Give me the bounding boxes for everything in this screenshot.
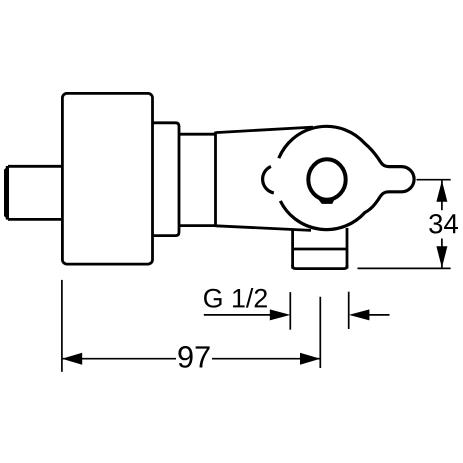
dim 97 right arrowhead [300, 353, 320, 365]
outlet right edge [346, 228, 349, 269]
dim 97 left extension line [61, 280, 63, 372]
stem outline [7, 166, 62, 220]
dim G 1/2 right tick [348, 292, 350, 329]
dim G 1/2 right line with left arrow [353, 314, 390, 316]
stem left chamfer bar [4, 165, 9, 221]
dim 34 top extension line [417, 179, 451, 181]
handle inner circle [308, 159, 345, 199]
knob body [62, 93, 152, 264]
dim 97 line left segment [62, 358, 176, 360]
dim 34 bottom extension line [358, 267, 451, 269]
outlet left edge [291, 230, 294, 268]
dim G 1/2 right arrowhead [270, 309, 291, 320]
dim 34 down arrowhead [436, 246, 447, 267]
dim G 1/2 left arrowhead [349, 309, 370, 320]
inner circle bottom tab [318, 199, 335, 204]
body shoulder vertical line [214, 132, 217, 227]
taper bottom line [216, 226, 312, 231]
dim 97 left arrowhead [62, 353, 82, 365]
dim G 1/2 left line with right arrow [204, 314, 285, 316]
dim 34 vertical line upper segment [441, 180, 443, 210]
outlet middle line [293, 248, 347, 251]
dim 34 label [429, 214, 458, 233]
dim 34 vertical line lower segment [441, 239, 443, 268]
dim 97 right extension line [319, 297, 321, 368]
collar 2 top edge [179, 133, 216, 136]
dim G 1/2 left tick [289, 292, 291, 330]
taper top line [216, 127, 314, 133]
dim G 1/2 label [204, 288, 267, 308]
dim 34 up arrowhead [436, 181, 447, 202]
collar 1 [153, 123, 180, 236]
collar 2 bottom edge [179, 224, 216, 227]
left ear arc [263, 166, 274, 193]
outlet bottom edge [293, 265, 347, 269]
dim 97 line right segment [212, 358, 320, 360]
valve body circle with right tab [279, 126, 414, 229]
dim 97 label [178, 346, 209, 368]
